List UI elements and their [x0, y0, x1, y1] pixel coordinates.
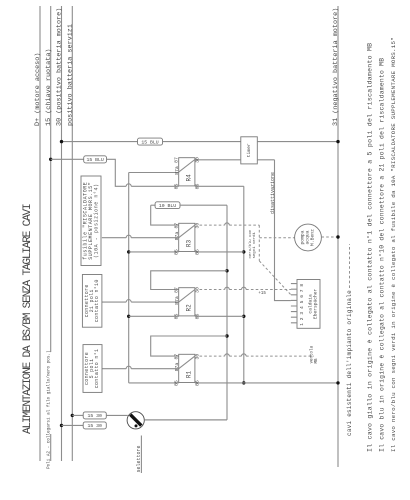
svg-text:M.Benz: M.Benz: [310, 229, 316, 246]
svg-text:87a: 87a: [174, 296, 180, 305]
net V7 coil return: [243, 186, 245, 383]
wire dashed pump to ground: [321, 236, 338, 238]
wire hop over V6: [126, 300, 131, 303]
svg-text:MB: MB: [315, 358, 319, 364]
svg-text:6: 6: [299, 295, 305, 298]
svg-text:nero/blu con: nero/blu con: [248, 229, 253, 258]
wire selector to V5: [144, 419, 227, 421]
svg-text:contatto n°1: contatto n°1: [94, 349, 100, 389]
junction V7/R3-86: [242, 250, 245, 253]
svg-text:5: 5: [299, 300, 305, 303]
pump M.Benz: [295, 224, 322, 251]
svg-text:85: 85: [173, 314, 179, 320]
junction V7/R2-86: [242, 315, 245, 318]
timer U1: [241, 137, 257, 164]
wire conn5 box to R1-87a: [102, 368, 179, 370]
wire hop over V6: [126, 366, 131, 369]
svg-text:8: 8: [299, 284, 305, 287]
svg-text:31 (negativo batteria motore): 31 (negativo batteria motore): [332, 8, 340, 126]
relay R3: [173, 223, 200, 255]
wire conn21 box to R2-87a: [102, 301, 179, 303]
wire F1 to R4 coil 85: [107, 159, 179, 186]
relay R2: [173, 287, 200, 319]
relay R1: [173, 354, 200, 386]
caldaia Eberspacher: [291, 280, 320, 329]
svg-text:disattivazione: disattivazione: [270, 172, 276, 214]
wire F2 to timer: [163, 141, 241, 143]
wire bus30 to fuse F5: [62, 424, 84, 426]
svg-text:15 30: 15 30: [87, 423, 102, 429]
bus 15: [50, 6, 52, 461]
svg-text:cavi esistenti dell'impianto o: cavi esistenti dell'impianto originale: [346, 290, 353, 436]
junction bus30/selector: [60, 424, 63, 427]
bus servizi: [71, 6, 73, 461]
wire V6 to R2-85: [129, 315, 179, 317]
svg-text:R1: R1: [185, 371, 192, 379]
svg-text:R3: R3: [185, 240, 192, 248]
net V5 feed from selector: [144, 205, 227, 420]
svg-text:86: 86: [194, 249, 200, 255]
svg-text:10 BLU: 10 BLU: [159, 203, 176, 209]
svg-text:85: 85: [173, 184, 179, 190]
wire R4-86 to net V7: [195, 185, 244, 187]
wire R4 pin30 to timer: [195, 159, 241, 161]
underline selettore: [140, 436, 142, 474]
white mask for note over bus15: [45, 352, 53, 434]
relay R4: [173, 157, 200, 189]
wire R2-86 to V7: [195, 315, 244, 317]
wire hop over V6: [126, 235, 131, 237]
svg-text:30: 30: [194, 157, 200, 163]
junction V6/R2-85: [127, 315, 130, 318]
svg-text:ventola: ventola: [310, 345, 315, 363]
svg-text:15 30: 15 30: [87, 413, 102, 419]
fuse F4: [83, 412, 106, 419]
junction bus30/timer wire: [60, 140, 63, 143]
wire disattivazione to caldaia pin5: [275, 160, 291, 301]
wire V6 corner to R1-85: [129, 382, 179, 384]
svg-text:Eberspächer: Eberspächer: [312, 288, 318, 319]
svg-text:86: 86: [194, 380, 200, 386]
wire bus15 to fuse F1: [51, 158, 84, 160]
wire servizi to fuse F4: [72, 414, 83, 416]
wire dashed R3-30 original: [200, 225, 291, 295]
svg-text:3: 3: [299, 312, 305, 315]
wire bus30 to fuse F2: [62, 141, 138, 143]
svg-text:30: 30: [194, 354, 200, 360]
svg-text:timer: timer: [246, 143, 252, 157]
wire dashed R2-30 +15 to caldaia pin7: [200, 289, 291, 291]
bus 30: [61, 6, 63, 461]
svg-text:4: 4: [299, 306, 305, 309]
svg-text:30: 30: [194, 287, 200, 293]
svg-text:2: 2: [299, 317, 305, 320]
bus 31 ground: [337, 6, 339, 467]
svg-text:30: 30: [194, 223, 200, 229]
svg-text:R4: R4: [185, 174, 192, 182]
wire fusibile box to R3-87a: [102, 237, 179, 239]
svg-text:86: 86: [194, 314, 200, 320]
svg-text:87: 87: [173, 157, 179, 163]
fusibile riscaldatore box: [81, 176, 101, 266]
junction pump/ground: [336, 235, 339, 238]
svg-text:ALIMENTAZIONE DA BS/BM SENZA T: ALIMENTAZIONE DA BS/BM SENZA TAGLIARE CA…: [22, 204, 34, 434]
wire R3-86 to V7: [195, 251, 244, 253]
svg-text:87a: 87a: [174, 363, 180, 372]
junction ground/coil return: [336, 381, 339, 384]
junction V5/R1 feed: [225, 334, 228, 337]
svg-text:Il cavo nero/blu con segni ver: Il cavo nero/blu con segni verdi in orig…: [390, 37, 397, 452]
wire V5 to R2 pin87: [151, 271, 227, 290]
svg-text:7: 7: [299, 289, 305, 292]
wire F3 to net V5: [180, 204, 227, 206]
junction V6/R3-85: [127, 250, 130, 253]
svg-text:87: 87: [173, 223, 179, 229]
wire F4 to selector: [106, 414, 127, 416]
svg-text:87a: 87a: [174, 232, 180, 241]
svg-text:D+ (motore acceso): D+ (motore acceso): [34, 53, 42, 126]
svg-text:87: 87: [173, 287, 179, 293]
svg-text:15 (chiave ruotata): 15 (chiave ruotata): [45, 48, 53, 126]
svg-text:85: 85: [173, 380, 179, 386]
selector switch: [127, 412, 144, 429]
wire dashed R1-30 to ventola MB: [200, 355, 315, 357]
fuse F5: [83, 422, 106, 429]
svg-text:86: 86: [194, 184, 200, 190]
svg-text:15 BLU: 15 BLU: [141, 139, 158, 145]
junction bus15/feed: [49, 158, 52, 161]
svg-text:contatto n°10: contatto n°10: [94, 279, 100, 322]
fuse F3 10A: [155, 202, 180, 209]
svg-text:Il cavo blu in origine è colle: Il cavo blu in origine è collegato al co…: [378, 58, 386, 452]
wire V5 to R1 pin87: [151, 336, 227, 356]
svg-text:positivo batteria servizi: positivo batteria servizi: [66, 24, 74, 126]
junction servizi/selector: [71, 414, 74, 417]
svg-text:Il cavo giallo in origine è co: Il cavo giallo in origine è collegato al…: [365, 43, 373, 452]
svg-text:30 (positivo batteria motore): 30 (positivo batteria motore): [56, 8, 64, 126]
connettore 21 poli box: [82, 275, 102, 328]
svg-text:(10A - posizione n°4): (10A - posizione n°4): [93, 183, 99, 258]
junction V5/R2 feed: [225, 269, 228, 272]
legend dash sample: [349, 244, 351, 288]
junction V7/ground wire: [242, 381, 245, 384]
wire dashed to pump: [259, 237, 294, 239]
wire timer to disattivazione: [257, 159, 274, 161]
svg-text:87: 87: [173, 354, 179, 360]
svg-text:Poli A2 - collegarsi al filo g: Poli A2 - collegarsi al filo giallo/nero…: [46, 350, 51, 469]
svg-text:87a: 87a: [174, 166, 180, 175]
wire jog to R3 pin87: [151, 205, 179, 225]
svg-text:15 BLU: 15 BLU: [86, 157, 103, 163]
svg-text:85: 85: [173, 249, 179, 255]
svg-text:segni verdi: segni verdi: [252, 231, 257, 258]
connettore 5 poli box: [83, 345, 102, 393]
net V6 87a/85 chain: [129, 173, 179, 383]
wire R1-86 to V7 to ground: [195, 382, 338, 384]
svg-text:R2: R2: [185, 304, 192, 312]
svg-text:1: 1: [299, 323, 305, 326]
wire V6 to R3-85: [129, 251, 179, 253]
fuse F1 15A: [84, 156, 107, 163]
wire hop over net V6: [126, 184, 131, 186]
junction timer/ground: [336, 140, 339, 143]
svg-text:+15: +15: [258, 292, 266, 296]
fuse F2 15A: [138, 138, 163, 145]
wire timer to ground bus: [257, 141, 338, 143]
bus D+: [39, 6, 41, 461]
wire stub to fuse F3: [151, 204, 155, 206]
